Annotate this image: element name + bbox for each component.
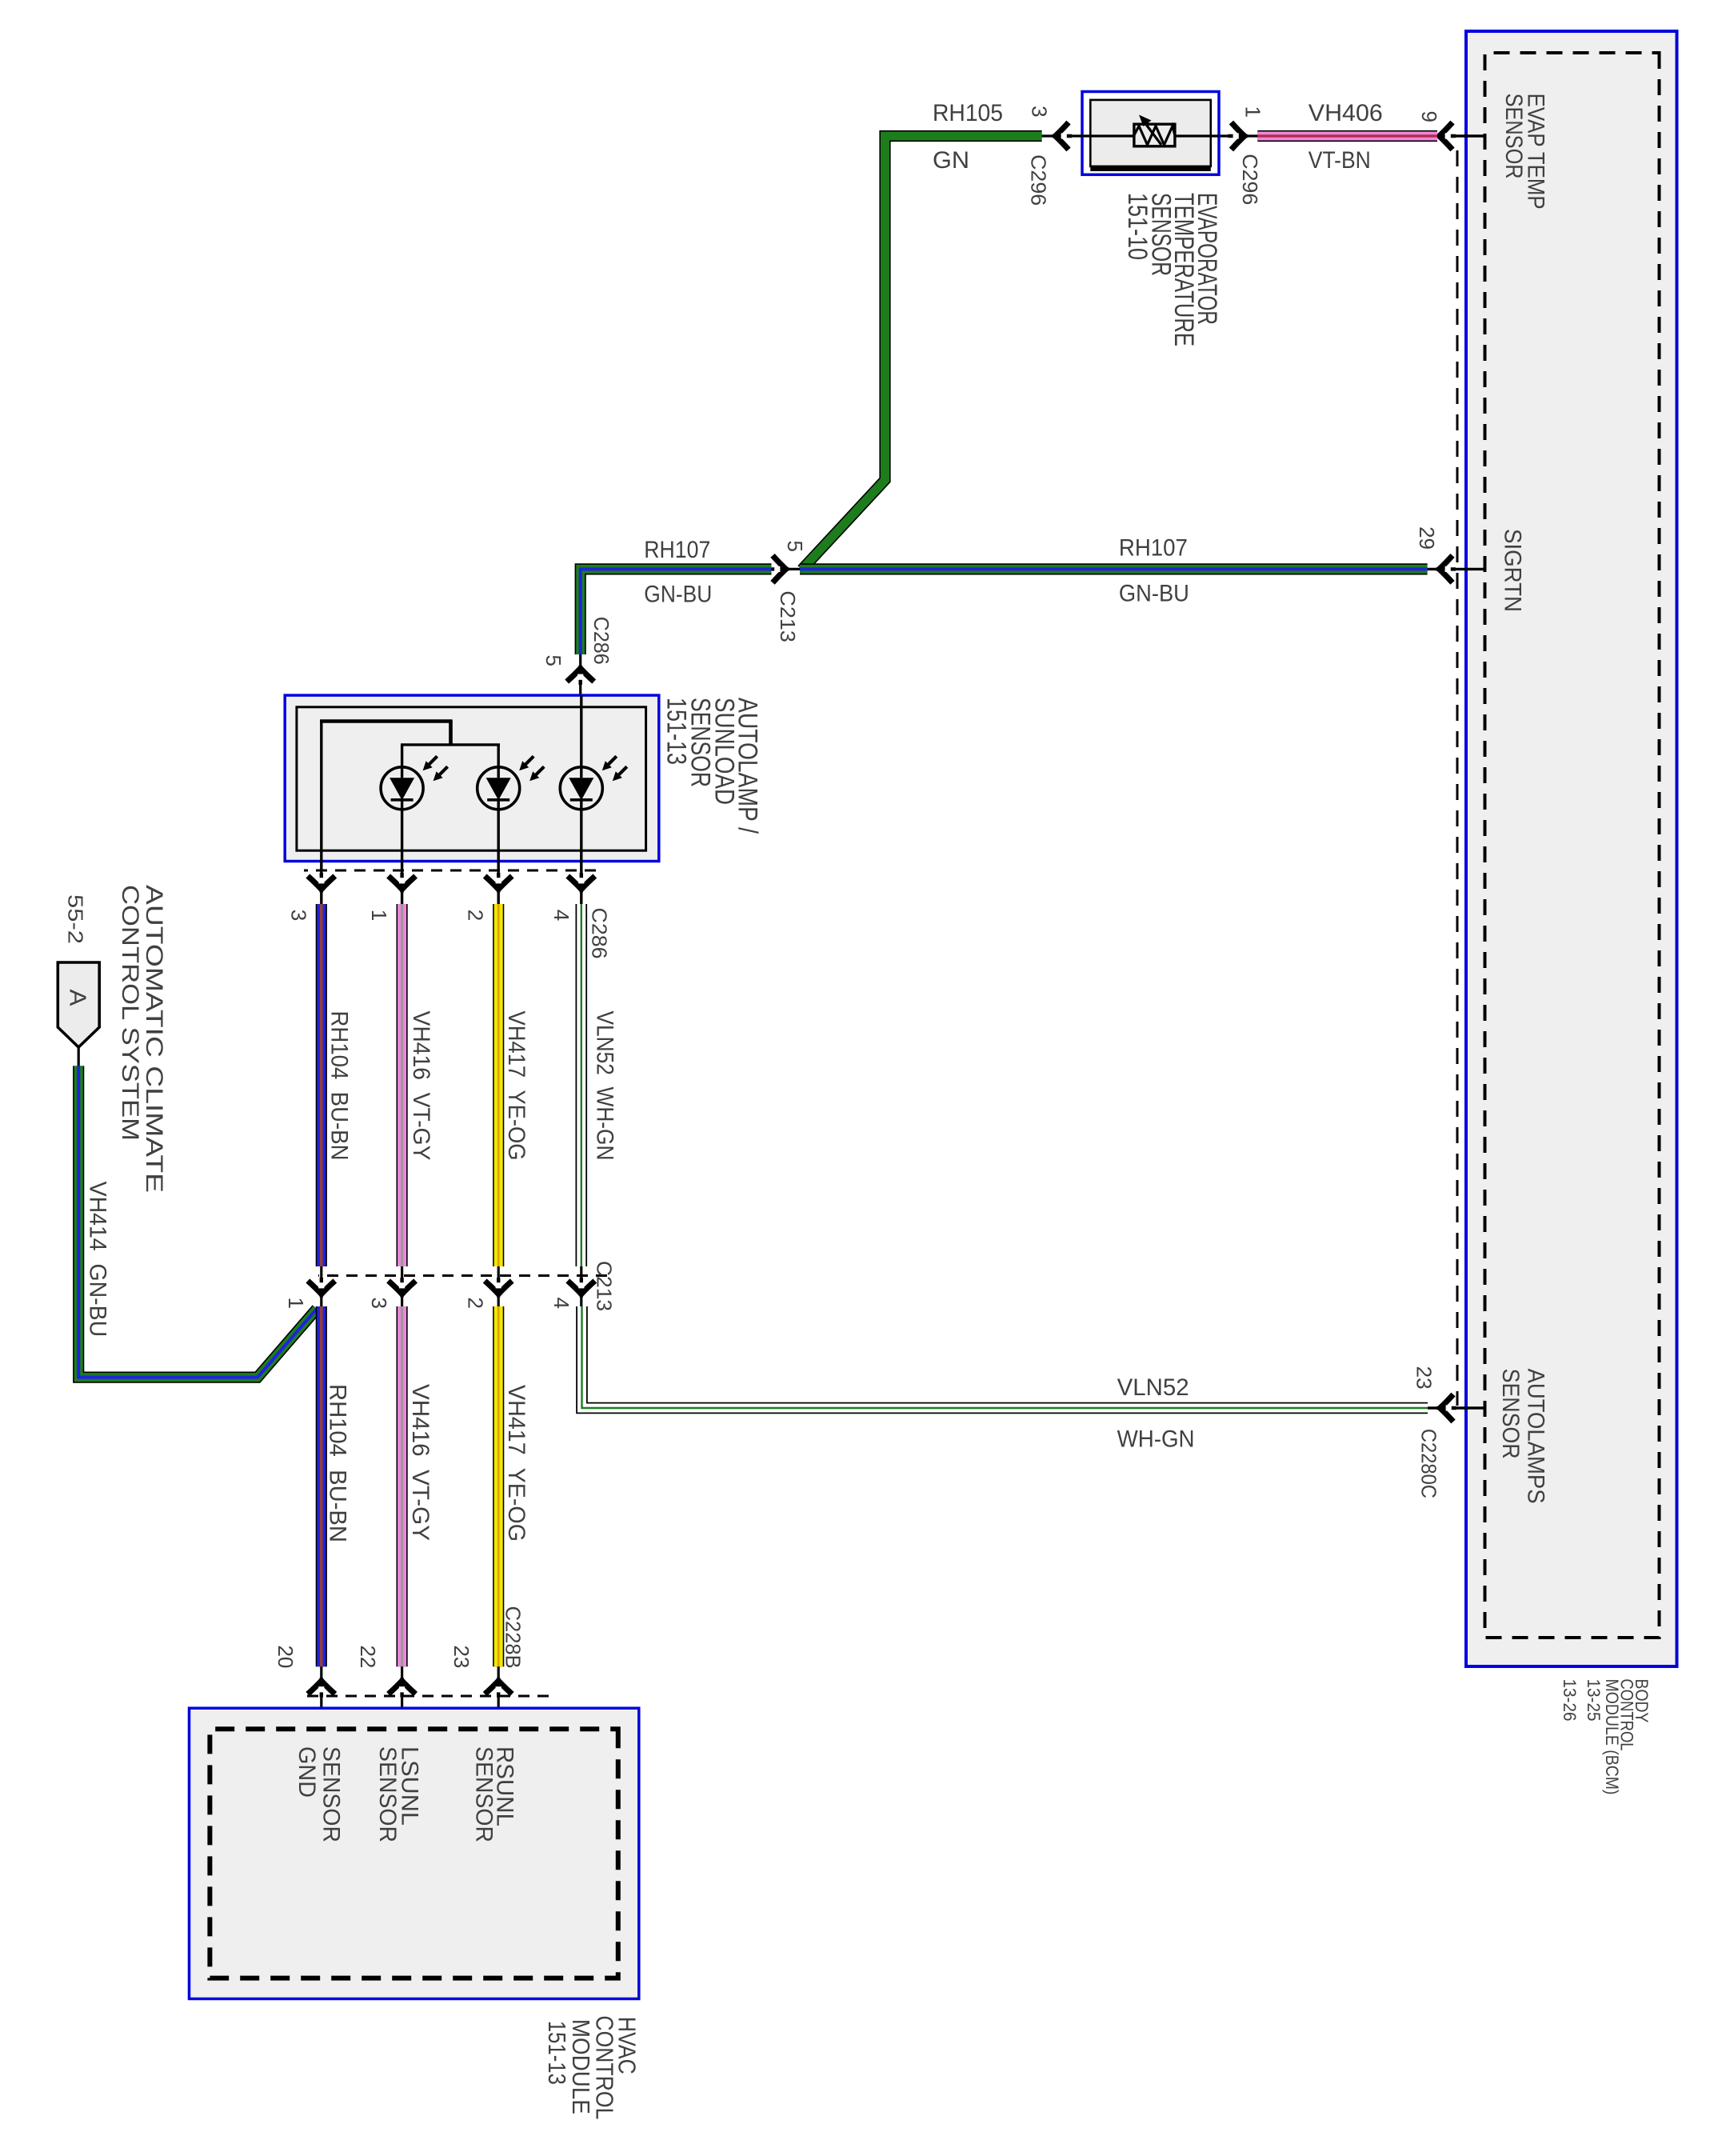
photodiode D3	[560, 756, 627, 810]
pin 4 connector arrow at C286	[568, 873, 595, 893]
svg-text:5: 5	[783, 541, 807, 552]
sunload internal wire top jog	[449, 720, 453, 745]
BCM connector face dashed line	[1456, 150, 1459, 1406]
svg-text:C296: C296	[1026, 154, 1050, 206]
pin 2 wire out of photodiode D2	[497, 810, 499, 904]
C228B connector arrow pin 20	[308, 1678, 335, 1698]
EVAP sensor inner box	[1090, 100, 1211, 166]
connector C228B dashed line	[300, 1695, 549, 1698]
C213 connector arrow pin 2	[485, 1278, 512, 1298]
svg-text:22: 22	[356, 1645, 380, 1668]
wire VLN52 WH-GN upper	[576, 904, 588, 1266]
pin 1 stub at EVAP sensor	[1219, 134, 1257, 137]
svg-text:1: 1	[284, 1298, 308, 1309]
svg-text:1: 1	[1241, 106, 1265, 118]
photodiode D2	[477, 756, 545, 810]
svg-text:13-26: 13-26	[1560, 1679, 1580, 1722]
C213 thin wire gap pin 3	[401, 1266, 403, 1307]
svg-text:GN: GN	[933, 147, 969, 174]
wire VH416 VT-GY upper	[396, 904, 407, 1266]
svg-text:C286: C286	[589, 617, 613, 665]
svg-text:GN-BU: GN-BU	[1119, 581, 1189, 607]
off-page connector A (55-2)	[58, 962, 99, 1047]
svg-text:20: 20	[274, 1645, 298, 1668]
C213 connector arrow pin 3	[389, 1278, 416, 1298]
inline connector C213 arrow on RH107	[769, 555, 789, 582]
svg-text:2: 2	[464, 1298, 488, 1309]
wire RH107 GN-BU lower segment	[581, 569, 772, 654]
svg-text:VLN52 WH-GN: VLN52 WH-GN	[591, 1011, 617, 1161]
pin 29 connector arrow	[1436, 555, 1456, 582]
svg-text:23: 23	[1412, 1366, 1436, 1390]
pin 23 connector arrow	[1437, 1394, 1457, 1422]
pin 1 connector arrow	[1228, 122, 1248, 150]
C228B connector arrow pin 22	[389, 1678, 416, 1698]
module box HVAC CONTROL MODULE	[190, 1708, 639, 1998]
wire RH104 BU-BN lower	[316, 1306, 327, 1666]
svg-text:3: 3	[367, 1298, 391, 1309]
svg-text:29: 29	[1415, 526, 1439, 550]
HVAC inner dashed border	[210, 1729, 617, 1978]
C213 thin wire gap pin 4	[580, 1266, 582, 1307]
C228B thin wire pin 20	[320, 1666, 322, 1729]
component box EVAPORATOR TEMPERATURE SENSOR	[1082, 92, 1219, 175]
svg-text:5: 5	[541, 655, 565, 666]
connector C286 dashed line	[304, 870, 596, 872]
pin 3 wire (sensor gnd) out of sunload box	[320, 722, 322, 905]
svg-text:C228B: C228B	[501, 1606, 525, 1669]
svg-text:VH406: VH406	[1308, 100, 1383, 126]
svg-text:VLN52: VLN52	[1117, 1374, 1189, 1401]
pin 9 stub at BCM	[1437, 134, 1486, 137]
svg-text:RH105: RH105	[933, 100, 1003, 126]
sunload internal wire anode bus	[401, 743, 500, 746]
svg-text:VT-BN: VT-BN	[1308, 147, 1371, 174]
pin 29 stub at BCM	[1428, 568, 1486, 570]
svg-text:GN-BU: GN-BU	[644, 581, 712, 607]
svg-text:CONTROL SYSTEM: CONTROL SYSTEM	[117, 885, 143, 1141]
pin 5 stub at sunload sensor	[579, 654, 581, 695]
svg-text:RH104 BU-BN: RH104 BU-BN	[324, 1384, 350, 1542]
EVAP sensor inner box thick edge	[1090, 166, 1211, 171]
svg-text:C213: C213	[776, 590, 800, 642]
svg-text:23: 23	[449, 1645, 473, 1668]
C228B thin wire pin 23	[497, 1666, 500, 1729]
photodiode D1	[381, 756, 448, 810]
svg-text:151-13: 151-13	[661, 698, 691, 765]
wire VLN52 WH-GN to BCM	[582, 1306, 1428, 1408]
pin 9 connector arrow	[1436, 122, 1456, 150]
wire VH414 GN-BU	[78, 1066, 317, 1377]
svg-text:AUTOLAMPS: AUTOLAMPS	[1523, 1369, 1549, 1504]
svg-text:C296: C296	[1238, 154, 1262, 205]
pin 5 connector arrow at C286	[567, 666, 594, 686]
wire RH105 GN	[802, 136, 1042, 570]
wire stub from A connector	[78, 1047, 80, 1067]
svg-text:MODULE (BCM): MODULE (BCM)	[1602, 1679, 1622, 1795]
pin 2 connector arrow at C286	[485, 873, 512, 893]
svg-text:VH416 VT-GY: VH416 VT-GY	[407, 1384, 433, 1541]
sunload sensor inner box	[297, 707, 646, 850]
sunload internal wire to photodiode D3	[580, 695, 582, 767]
svg-text:SENSOR: SENSOR	[374, 1746, 401, 1842]
svg-text:VH417 YE-OG: VH417 YE-OG	[503, 1011, 529, 1161]
svg-text:SENSOR: SENSOR	[318, 1746, 345, 1842]
pin 23 stub at BCM	[1427, 1406, 1486, 1409]
wire RH107 thin gap at C213	[772, 568, 800, 570]
svg-text:151-10: 151-10	[1122, 193, 1153, 260]
wire VH406 VT-BN	[1257, 130, 1437, 142]
svg-text:3: 3	[1028, 106, 1052, 117]
svg-text:RH107: RH107	[644, 537, 710, 563]
svg-text:VH416 VT-GY: VH416 VT-GY	[408, 1011, 434, 1161]
svg-text:151-13: 151-13	[543, 2021, 571, 2085]
svg-text:AUTOMATIC CLIMATE: AUTOMATIC CLIMATE	[141, 885, 167, 1193]
svg-text:2: 2	[464, 910, 488, 921]
svg-text:3: 3	[287, 910, 311, 921]
module box BCM (Body Control Module)	[1466, 31, 1677, 1666]
pin 3 stub at EVAP sensor	[1041, 134, 1082, 137]
wire RH104 BU-BN upper	[316, 904, 327, 1266]
pin 1 connector arrow at C286	[389, 873, 416, 893]
sunload internal stub to photodiode D2	[497, 745, 499, 767]
svg-text:4: 4	[549, 910, 573, 921]
svg-text:SENSOR: SENSOR	[1497, 1369, 1524, 1459]
svg-text:55-2: 55-2	[64, 894, 88, 944]
pin 3 connector arrow at C286	[308, 873, 335, 893]
C213 connector arrow pin 4	[568, 1278, 595, 1298]
svg-text:VH414 GN-BU: VH414 GN-BU	[85, 1182, 111, 1338]
C213 thin wire gap pin 1	[320, 1266, 322, 1307]
wire VH417 YE-OG upper	[493, 904, 504, 1266]
svg-text:SENSOR: SENSOR	[470, 1746, 497, 1842]
svg-text:GND: GND	[294, 1746, 320, 1798]
svg-text:C213: C213	[592, 1261, 616, 1311]
pin 1 wire out of photodiode D1	[401, 810, 403, 904]
BCM inner dashed border	[1485, 53, 1660, 1638]
svg-text:SIGRTN: SIGRTN	[1499, 529, 1525, 612]
wire VH416 VT-GY lower	[396, 1306, 407, 1666]
svg-text:RH104 BU-BN: RH104 BU-BN	[326, 1011, 353, 1161]
wire VH417 YE-OG lower	[493, 1306, 504, 1666]
svg-text:C286: C286	[588, 908, 612, 959]
svg-text:WH-GN: WH-GN	[1117, 1426, 1195, 1453]
C228B connector arrow pin 23	[485, 1678, 512, 1698]
wire RH107 GN-BU upper segment	[800, 563, 1428, 574]
pin 4 wire out of photodiode D3	[580, 810, 582, 904]
svg-text:RH107: RH107	[1119, 535, 1188, 562]
component box AUTOLAMP/SUNLOAD SENSOR	[285, 695, 659, 861]
connector C213 dashed line	[318, 1274, 607, 1277]
sunload internal stub to photodiode D1	[401, 745, 403, 767]
sunload internal wire pin3 riser	[320, 719, 452, 723]
EVAP sensor internal wire bottom	[1082, 134, 1135, 137]
svg-text:4: 4	[549, 1298, 573, 1309]
svg-text:1: 1	[367, 910, 391, 921]
svg-text:A: A	[64, 990, 90, 1007]
C213 thin wire gap pin 2	[497, 1266, 500, 1307]
svg-text:VH417 YE-OG: VH417 YE-OG	[503, 1385, 529, 1542]
svg-text:C2280C: C2280C	[1417, 1429, 1441, 1498]
EVAP sensor internal wire top	[1174, 134, 1219, 137]
pin 3 connector arrow	[1053, 122, 1073, 150]
svg-text:13-25: 13-25	[1584, 1679, 1604, 1722]
C228B thin wire pin 22	[401, 1666, 403, 1729]
svg-text:SENSOR: SENSOR	[1500, 94, 1527, 179]
C213 connector arrow pin 1	[308, 1278, 335, 1298]
svg-text:9: 9	[1417, 111, 1441, 122]
thermistor RT (EVAP temp sensing element)	[1134, 115, 1175, 146]
